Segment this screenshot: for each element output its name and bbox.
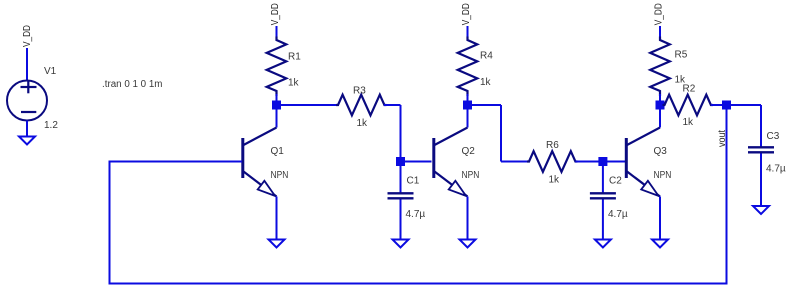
ground — [19, 137, 35, 145]
wire (Q1 base) — [110, 161, 243, 163]
svg-text:1k: 1k — [357, 118, 369, 129]
wire — [400, 162, 402, 193]
svg-text:Q2: Q2 — [462, 146, 476, 157]
ground — [595, 240, 611, 248]
svg-text:NPN: NPN — [462, 170, 480, 181]
transistor Q2 — [435, 128, 468, 146]
ground — [460, 240, 476, 248]
transistor Q3 — [627, 128, 660, 146]
svg-text:R1: R1 — [288, 52, 301, 63]
svg-text:C1: C1 — [407, 176, 420, 187]
node A (R1/Q1 collector) — [272, 101, 281, 110]
svg-text:V_DD: V_DD — [460, 3, 472, 25]
voltage source V1 — [7, 81, 47, 121]
svg-text:1k: 1k — [683, 117, 695, 128]
ground — [393, 240, 409, 248]
node E (R5/Q3 collector) — [656, 101, 665, 110]
wire — [276, 26, 278, 38]
wire — [400, 200, 402, 241]
node vout — [722, 101, 731, 110]
resistor R2 — [663, 95, 713, 116]
resistor R1 — [267, 37, 287, 97]
svg-text:NPN: NPN — [654, 170, 672, 181]
svg-text:NPN: NPN — [271, 170, 289, 181]
svg-text:R5: R5 — [675, 50, 688, 61]
wire — [471, 104, 502, 106]
transistor Q3 collector wire — [659, 105, 661, 128]
wire (feedback left) — [109, 161, 111, 285]
wire — [711, 104, 727, 106]
svg-text:1k: 1k — [480, 77, 492, 88]
wire — [602, 162, 604, 193]
svg-text:V_DD: V_DD — [21, 25, 33, 47]
svg-text:1k: 1k — [549, 175, 561, 186]
svg-text:Q1: Q1 — [271, 146, 285, 157]
svg-text:V_DD: V_DD — [653, 3, 665, 25]
node C (R4/Q2 collector) — [463, 101, 472, 110]
wire — [280, 104, 340, 106]
ground — [652, 240, 668, 248]
svg-text:C2: C2 — [609, 176, 622, 187]
svg-text:.tran 0 1 0 1m: .tran 0 1 0 1m — [102, 79, 162, 90]
svg-text:R4: R4 — [480, 51, 493, 62]
transistor Q1 emitter wire — [276, 197, 278, 241]
svg-text:4.7µ: 4.7µ — [766, 164, 786, 175]
resistor R6 — [527, 151, 577, 172]
capacitor C2 — [590, 192, 616, 194]
wire — [727, 104, 762, 106]
svg-text:V_DD: V_DD — [269, 3, 281, 25]
svg-text:V1: V1 — [44, 66, 57, 77]
node D (C2/Q3 base) — [598, 157, 607, 166]
svg-text:R3: R3 — [353, 86, 366, 97]
wire — [26, 48, 28, 81]
svg-text:1k: 1k — [288, 78, 300, 89]
svg-text:Q3: Q3 — [654, 146, 668, 157]
capacitor C3 — [748, 146, 774, 148]
transistor Q2 emitter wire — [467, 197, 469, 241]
wire — [760, 154, 762, 207]
wire — [26, 121, 28, 138]
wire — [467, 26, 469, 38]
wire (feedback bottom) — [109, 283, 726, 285]
wire — [659, 26, 661, 38]
resistor R4 — [458, 37, 478, 97]
wire — [602, 200, 604, 241]
capacitor C1 — [388, 192, 414, 194]
transistor Q2 collector wire — [467, 105, 469, 128]
resistor R3 — [336, 95, 386, 116]
transistor Q3 emitter wire — [659, 197, 661, 241]
svg-text:R6: R6 — [546, 140, 559, 151]
svg-text:C3: C3 — [767, 131, 780, 142]
wire — [401, 161, 432, 163]
ground — [753, 206, 769, 214]
svg-text:R2: R2 — [683, 84, 696, 95]
svg-text:4.7µ: 4.7µ — [406, 209, 426, 220]
svg-text:1.2: 1.2 — [44, 120, 58, 131]
transistor Q1 collector wire — [276, 105, 278, 128]
resistor R5 — [650, 37, 670, 97]
wire (feedback right) — [726, 105, 728, 285]
node B (C1/Q2 base) — [396, 157, 405, 166]
ground — [269, 240, 285, 248]
wire — [384, 104, 401, 106]
svg-text:4.7µ: 4.7µ — [608, 209, 628, 220]
wire — [575, 161, 603, 163]
transistor Q1 — [244, 128, 277, 146]
wire — [603, 161, 626, 163]
